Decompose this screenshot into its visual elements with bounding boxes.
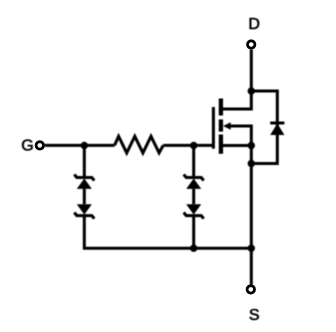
node gate junction right <box>190 142 197 149</box>
terminal D circle <box>248 41 255 48</box>
node body-diode anode junction <box>248 160 255 167</box>
MOSFET Q1 channel bar (source) <box>219 135 223 154</box>
node source bottom junction <box>248 245 255 252</box>
wire bottom rail <box>83 247 251 250</box>
zener Z2 (left lower, cathode down) <box>74 204 94 219</box>
wire right zener chain bottom <box>192 216 195 249</box>
zener Z4 (right lower, cathode down) <box>184 204 204 219</box>
node drain junction <box>248 87 255 94</box>
MOSFET Q1 channel bar (drain) <box>219 99 223 116</box>
wire MOSFET source lead <box>221 144 251 147</box>
wire source node down to bottom <box>250 146 253 249</box>
zener Z1 (left upper, cathode up) <box>74 174 94 189</box>
resistor R1 <box>115 136 164 153</box>
svg-text:G: G <box>21 138 33 155</box>
wire G terminal to resistor <box>45 144 115 147</box>
wire right zener chain top <box>192 146 195 178</box>
wire body diode branch <box>251 91 277 164</box>
node gate junction left <box>81 142 88 149</box>
node bottom right zener junction <box>190 245 197 252</box>
svg-text:D: D <box>248 16 260 33</box>
wire left zener chain top <box>83 146 86 178</box>
diode D1 (body diode) <box>270 123 284 135</box>
wire D terminal to drain node <box>250 49 253 92</box>
wire between left zeners <box>83 189 86 204</box>
svg-text:S: S <box>249 307 260 324</box>
wire body connection to source node <box>230 126 252 146</box>
wire left zener chain bottom <box>83 216 86 250</box>
wire resistor to gate <box>163 144 213 147</box>
terminal S circle <box>247 286 254 293</box>
MOSFET Q1 channel bar (body) <box>219 119 223 131</box>
terminal G circle <box>36 142 43 149</box>
node source junction <box>248 142 255 149</box>
wire between right zeners <box>192 189 195 204</box>
MOSFET Q1 gate bar <box>212 107 215 149</box>
zener Z3 (right upper, cathode up) <box>184 174 204 189</box>
MOSFET Q1 body arrow <box>223 122 231 130</box>
wire to S terminal <box>250 248 253 285</box>
wire drain branch to MOSFET <box>221 91 251 109</box>
